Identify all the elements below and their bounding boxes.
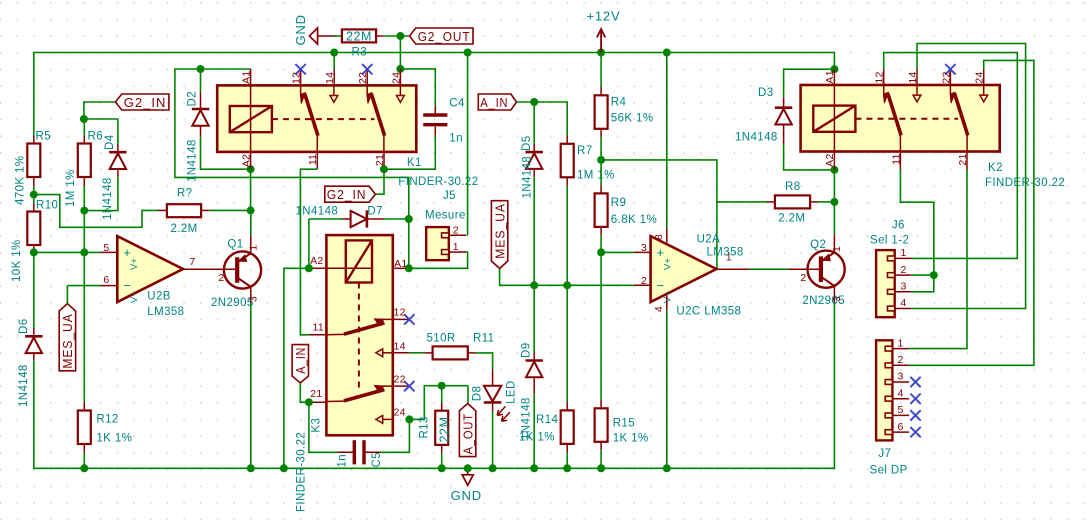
K3 pin14 marker — [383, 352, 393, 354]
svg-text:4: 4 — [653, 306, 665, 312]
svg-text:K1: K1 — [407, 157, 422, 169]
svg-text:1N4148: 1N4148 — [735, 132, 778, 144]
svg-text:1: 1 — [901, 247, 907, 259]
op-amp U2B — [117, 236, 183, 302]
J7 pin 2 — [892, 364, 909, 366]
svg-text:12: 12 — [291, 72, 303, 84]
wire A2 pin stub — [250, 152, 252, 169]
resistor R3 — [342, 29, 376, 42]
svg-text:1N4148: 1N4148 — [187, 139, 199, 182]
wire A2 down to R? node — [250, 169, 252, 210]
relay K1 — [217, 85, 416, 151]
K1 pin24 marker — [399, 85, 401, 95]
K2 switch 1 — [883, 85, 885, 94]
svg-text:G2_IN: G2_IN — [124, 95, 167, 110]
svg-text:11: 11 — [313, 322, 325, 334]
resistor R11 — [393, 352, 410, 354]
wire R6 col to pin5 node — [83, 211, 85, 253]
connector J5 — [426, 227, 449, 260]
node pin5 junction — [80, 248, 88, 256]
capacitor C4 — [434, 106, 436, 113]
J6 pin 1 — [895, 257, 912, 259]
K2 coil — [813, 106, 855, 132]
J7 pin 6 — [892, 431, 909, 433]
svg-text:G2_OUT: G2_OUT — [418, 29, 471, 44]
resistor R7 — [566, 136, 568, 144]
svg-text:4: 4 — [901, 297, 907, 309]
relay K2 — [801, 85, 1000, 152]
diode D9 — [533, 285, 535, 352]
resistor R10 — [33, 195, 35, 204]
svg-text:1K 1%: 1K 1% — [519, 431, 555, 443]
svg-text:D7: D7 — [367, 206, 383, 218]
K3 pin 21 stub — [309, 401, 327, 403]
svg-text:Mesure: Mesure — [425, 210, 466, 222]
wire A_IN to D5/R7 — [517, 101, 535, 103]
wire K2 pin12 to J6 pin1 — [883, 69, 885, 85]
wire GND bottom bus — [34, 303, 835, 469]
svg-text:U2A: U2A — [697, 233, 721, 245]
J7 pin 1 — [892, 348, 909, 350]
K1 coil — [230, 106, 272, 132]
net label A_IN — [478, 94, 516, 110]
svg-text:2: 2 — [800, 272, 806, 284]
svg-text:LED: LED — [506, 380, 518, 404]
capacitor C5 — [337, 451, 354, 453]
Q2 collector — [821, 252, 835, 261]
svg-text:D4: D4 — [104, 134, 116, 150]
wire D3 to A2 K2 — [784, 144, 835, 170]
no-connect X — [404, 314, 414, 324]
svg-text:1N4148: 1N4148 — [296, 206, 339, 218]
resistor R10 — [27, 212, 40, 246]
K2 pin22 stub — [949, 69, 951, 85]
wire A2 to D7 — [308, 219, 310, 268]
K3 A1 node — [405, 264, 413, 272]
svg-text:+12V: +12V — [587, 9, 621, 24]
J7 pin 5 — [892, 414, 909, 416]
wire Q1 emitter to GND bus — [250, 303, 252, 468]
wire U2B out to Q1 base — [183, 268, 237, 270]
net label MES_UA — [59, 304, 75, 371]
svg-text:14: 14 — [394, 340, 406, 352]
svg-text:1: 1 — [831, 246, 843, 252]
svg-text:1K 1%: 1K 1% — [613, 432, 649, 444]
K3 dashed link — [358, 283, 360, 390]
node pin24 junction — [396, 65, 404, 73]
J5 pin2 — [449, 234, 467, 236]
svg-text:D8: D8 — [471, 386, 483, 402]
wire R? to Q1 collector node — [209, 209, 250, 211]
transistor Q2 — [808, 251, 845, 288]
node R7 row — [563, 281, 571, 289]
connector J6 — [876, 250, 895, 317]
svg-text:2: 2 — [898, 354, 904, 366]
wire R3 to G2_OUT — [376, 35, 383, 37]
svg-text:6: 6 — [103, 274, 109, 286]
svg-text:8: 8 — [653, 234, 665, 240]
K3 pin 22 stub — [393, 385, 410, 387]
relay K3 — [326, 235, 392, 435]
power GND bottom — [467, 468, 469, 474]
K3 pin 11 stub — [309, 334, 327, 336]
J6 pin 2 — [895, 274, 912, 276]
svg-text:D9: D9 — [521, 342, 533, 358]
node R5/R10 junction — [30, 191, 38, 199]
node R13 top — [438, 382, 446, 390]
connector J7 — [876, 340, 892, 440]
svg-text:1M 1%: 1M 1% — [65, 169, 77, 207]
svg-text:GND: GND — [293, 14, 308, 45]
diode D3 — [784, 69, 835, 97]
node A1 K2 — [830, 65, 838, 73]
svg-text:1n: 1n — [449, 133, 463, 145]
svg-text:A2: A2 — [310, 255, 323, 267]
no-connect X — [910, 427, 920, 437]
svg-text:2: 2 — [218, 272, 224, 284]
wire K2 pin14 to J6 pin4 — [916, 69, 918, 85]
wire R12 column — [83, 252, 85, 402]
LED D8 — [492, 370, 494, 386]
J6 pin 3 — [895, 291, 912, 293]
svg-text:1N4148: 1N4148 — [102, 177, 114, 220]
K1 pin14 marker — [333, 85, 335, 95]
K3 A2 node — [305, 264, 313, 272]
J7 pin 3 — [892, 381, 909, 383]
wire K2 pin21 to J7 pin1 — [966, 152, 968, 170]
svg-text:7: 7 — [189, 256, 195, 268]
wire A2 to R8 node — [833, 170, 835, 202]
node R3 right — [396, 32, 404, 40]
wire MES_UA row — [500, 269, 634, 286]
wire A2 to GND bus — [284, 268, 309, 468]
svg-text:J6: J6 — [892, 219, 905, 231]
svg-text:6: 6 — [898, 421, 904, 433]
svg-text:D2: D2 — [187, 91, 199, 107]
K1 pin22 stub — [366, 69, 368, 85]
net label A_OUT — [459, 404, 475, 457]
node A2 junction — [247, 165, 255, 173]
wire G2_IN to R6/D4 — [84, 102, 116, 119]
svg-text:12: 12 — [394, 307, 406, 319]
svg-text:6.8K 1%: 6.8K 1% — [611, 214, 657, 226]
svg-text:1K 1%: 1K 1% — [96, 433, 132, 445]
svg-text:3: 3 — [831, 296, 843, 302]
diode D6 — [33, 252, 35, 328]
resistor R5 — [27, 144, 40, 178]
Q1 collector — [237, 253, 251, 262]
wire +12V to J5 pin2 — [467, 53, 469, 236]
resistor R12 — [78, 411, 91, 445]
K3 pin24 marker — [383, 418, 393, 420]
svg-text:V+: V+ — [129, 258, 140, 270]
wire C5 to pin24 — [381, 419, 410, 452]
svg-text:56K 1%: 56K 1% — [611, 113, 654, 125]
svg-text:22: 22 — [940, 71, 952, 83]
svg-text:3: 3 — [898, 371, 904, 383]
wire pin24 to C4 — [400, 69, 435, 106]
K1 pin21 junction — [383, 152, 385, 169]
wire D5 to MES_UA row — [533, 177, 535, 285]
wire to U2B pin5 — [34, 251, 85, 253]
diode D4 — [117, 144, 119, 152]
U2A pin2 stub — [634, 284, 651, 286]
svg-text:510R: 510R — [427, 333, 456, 345]
svg-text:2.2M: 2.2M — [778, 212, 805, 224]
svg-text:R5: R5 — [36, 131, 52, 143]
svg-text:U2C LM358: U2C LM358 — [676, 305, 741, 317]
svg-text:R14: R14 — [536, 414, 559, 426]
svg-text:22M: 22M — [346, 30, 372, 44]
svg-text:1N4148: 1N4148 — [18, 364, 30, 407]
svg-text:R7: R7 — [577, 145, 593, 157]
svg-text:24: 24 — [394, 407, 406, 419]
svg-text:2: 2 — [453, 224, 459, 236]
net label A_IN — [292, 345, 308, 383]
K2 pin24 marker — [983, 85, 985, 95]
svg-text:+: + — [657, 245, 665, 260]
svg-text:−: − — [657, 278, 665, 293]
K3 switch 2 — [374, 385, 392, 387]
wire to U2A pin3 — [601, 251, 634, 253]
svg-text:A_IN: A_IN — [480, 95, 508, 110]
svg-text:GND: GND — [451, 488, 482, 503]
net label G2_IN — [325, 186, 376, 202]
net label MES_UA — [491, 201, 507, 269]
svg-text:1M 1%: 1M 1% — [577, 170, 615, 182]
node J6 pin2 — [930, 271, 938, 279]
node R? junction — [247, 206, 255, 214]
wire A1 pin stub — [250, 69, 252, 85]
node R9 bottom — [597, 248, 605, 256]
wire to D4 — [84, 119, 118, 144]
svg-text:10K 1%: 10K 1% — [11, 239, 23, 282]
svg-text:2: 2 — [641, 275, 647, 287]
wire C4 to pin21 — [384, 136, 435, 170]
resistor R? — [167, 204, 201, 217]
K3 pin24 node — [405, 415, 413, 423]
node D5 row — [530, 281, 538, 289]
svg-text:−: − — [123, 278, 131, 293]
svg-text:4: 4 — [898, 387, 904, 399]
wire D4 to R6 bottom — [84, 177, 118, 210]
wire K2 pin24 to J7 pin2 — [983, 69, 985, 85]
K2 coil pins — [833, 69, 835, 85]
svg-text:A1: A1 — [824, 70, 836, 83]
resistor R14 — [566, 285, 568, 402]
Q1 emitter — [237, 278, 251, 287]
svg-text:22M: 22M — [437, 416, 451, 442]
switch blade — [367, 93, 372, 104]
svg-text:K3: K3 — [311, 418, 323, 433]
op-amp U2A — [651, 236, 717, 302]
wire K1 A1 net — [175, 69, 409, 268]
svg-text:D5: D5 — [521, 135, 533, 151]
node A1 junction — [197, 65, 205, 73]
wire R4/R9 to R8 and U2A out — [601, 160, 717, 269]
wire pin24 to R13/A_OUT — [409, 386, 468, 420]
resistor R6 — [83, 119, 85, 136]
wire J5 pin1 to A1 K3 — [409, 252, 468, 268]
svg-text:J5: J5 — [443, 190, 456, 202]
transistor Q1 — [224, 251, 261, 288]
node R4/R9 — [597, 156, 605, 164]
K3 coil pins — [309, 267, 327, 269]
wire pin14 tap — [333, 53, 335, 69]
svg-text:R9: R9 — [611, 197, 627, 209]
svg-text:R4: R4 — [611, 96, 627, 108]
power GND top — [309, 28, 317, 44]
svg-text:LM358: LM358 — [147, 306, 184, 318]
wire D9 to GND bus — [533, 393, 535, 468]
svg-text:A2: A2 — [240, 154, 252, 167]
resistor R4 — [600, 53, 602, 88]
svg-text:FINDER-30.22: FINDER-30.22 — [296, 432, 308, 512]
wire left rail to R5 — [33, 136, 35, 144]
svg-text:Sel 1-2: Sel 1-2 — [870, 235, 909, 247]
K3 coil — [346, 240, 372, 282]
svg-text:21: 21 — [310, 388, 322, 400]
svg-text:5: 5 — [898, 404, 904, 416]
resistor R8 — [717, 201, 767, 203]
J5 pin1 — [449, 251, 467, 253]
node R6 bottom junction — [80, 207, 88, 215]
svg-text:V−: V− — [129, 291, 140, 303]
svg-text:1: 1 — [248, 245, 260, 251]
svg-text:R12: R12 — [96, 414, 118, 426]
svg-text:G2_IN: G2_IN — [327, 187, 367, 202]
wire U2A out — [716, 268, 749, 270]
switch blade — [300, 93, 305, 104]
resistor R15 — [600, 252, 602, 400]
svg-text:R3: R3 — [352, 47, 368, 59]
svg-text:3: 3 — [248, 296, 260, 302]
svg-text:R6: R6 — [88, 131, 104, 143]
svg-text:A_OUT: A_OUT — [460, 413, 475, 454]
power +12V — [600, 30, 602, 53]
net label G2_OUT — [410, 28, 473, 44]
svg-text:14: 14 — [324, 72, 336, 84]
svg-text:R?: R? — [177, 187, 193, 199]
K2 switch 2 — [949, 85, 951, 94]
GND bus junction dots — [80, 464, 88, 472]
wire pin21 to G2_IN — [375, 169, 384, 194]
pin 8 — [666, 53, 668, 228]
J7 pin 4 — [892, 398, 909, 400]
diode D5 — [533, 102, 535, 144]
svg-text:J7: J7 — [878, 448, 891, 460]
net label G2_IN — [115, 94, 168, 110]
node R8 right — [830, 198, 838, 206]
svg-text:V−: V− — [663, 291, 674, 303]
node A_IN junction — [530, 98, 538, 106]
net label A_OUT — [467, 386, 469, 404]
no-connect X — [295, 64, 305, 74]
svg-text:22: 22 — [357, 72, 369, 84]
wire down to pin24 — [399, 36, 401, 69]
Q2 emitter — [821, 277, 835, 286]
svg-text:R10: R10 — [36, 200, 58, 212]
svg-text:C4: C4 — [449, 98, 465, 110]
resistor R13 — [441, 386, 443, 403]
svg-text:FINDER-30.22: FINDER-30.22 — [398, 176, 478, 188]
wire U2B pin6 — [67, 285, 100, 287]
svg-text:1: 1 — [453, 241, 459, 253]
no-connect X — [910, 377, 920, 387]
svg-text:A1: A1 — [240, 71, 252, 84]
no-connect X — [945, 64, 955, 74]
svg-text:R15: R15 — [613, 417, 635, 429]
svg-text:A_IN: A_IN — [293, 347, 308, 374]
K3 pin21 node — [305, 398, 313, 406]
diode D7 — [309, 218, 342, 220]
svg-text:D3: D3 — [758, 87, 774, 99]
K3 switch 1 — [374, 318, 392, 320]
resistor R6 — [78, 144, 91, 178]
wire R5R10 to R? — [34, 195, 159, 228]
svg-text:3: 3 — [901, 281, 907, 293]
svg-text:Q2: Q2 — [810, 239, 826, 251]
svg-text:U2B: U2B — [147, 291, 171, 303]
svg-text:3: 3 — [641, 242, 647, 254]
K1 switch 2 — [366, 85, 368, 94]
svg-text:2: 2 — [901, 264, 907, 276]
node A2 K2 — [830, 166, 838, 174]
svg-text:+: + — [123, 245, 131, 260]
K2 dashed link — [855, 118, 958, 120]
svg-text:MES_UA: MES_UA — [492, 203, 507, 259]
diode D2 — [200, 69, 202, 93]
switch blade — [950, 92, 955, 103]
no-connect X — [404, 381, 414, 391]
wire pin21 to C5 — [309, 402, 337, 452]
svg-text:1: 1 — [898, 337, 904, 349]
K1 switch 1 — [300, 85, 302, 94]
svg-text:R8: R8 — [785, 181, 801, 193]
svg-text:MES_UA: MES_UA — [60, 313, 75, 368]
wire K2 pin11 to J6 pin2/3 — [899, 152, 901, 170]
wire GND to R3 — [334, 35, 342, 37]
wire D2 to A2 — [201, 137, 251, 170]
svg-text:C5: C5 — [371, 452, 383, 468]
svg-text:V+: V+ — [663, 258, 674, 270]
svg-text:D6: D6 — [18, 318, 30, 334]
svg-text:470K 1%: 470K 1% — [15, 156, 27, 205]
K1 pin11 wire — [316, 152, 318, 169]
K1 dashed link — [272, 118, 375, 120]
node D7 right — [405, 215, 413, 223]
no-connect X — [910, 410, 920, 420]
no-connect X — [362, 64, 372, 74]
J6 pin 4 — [895, 308, 912, 310]
node R6 top junction — [80, 115, 88, 123]
svg-text:24: 24 — [390, 72, 402, 84]
wire A_IN to pin21 node — [300, 383, 309, 402]
wire D8 to GND bus — [492, 412, 494, 468]
svg-text:1N4148: 1N4148 — [522, 156, 534, 199]
K1 pin12 stub — [300, 69, 302, 85]
pin 4 — [666, 296, 668, 311]
svg-text:K2: K2 — [988, 162, 1003, 174]
svg-text:Q1: Q1 — [227, 239, 243, 251]
no-connect X — [910, 394, 920, 404]
svg-text:1n: 1n — [337, 454, 349, 468]
node +12V bus junctions — [330, 49, 338, 57]
svg-text:A1: A1 — [394, 258, 407, 270]
svg-text:22: 22 — [394, 373, 406, 385]
K2 pin14 marker — [916, 85, 918, 95]
node R10 bottom — [30, 248, 38, 256]
